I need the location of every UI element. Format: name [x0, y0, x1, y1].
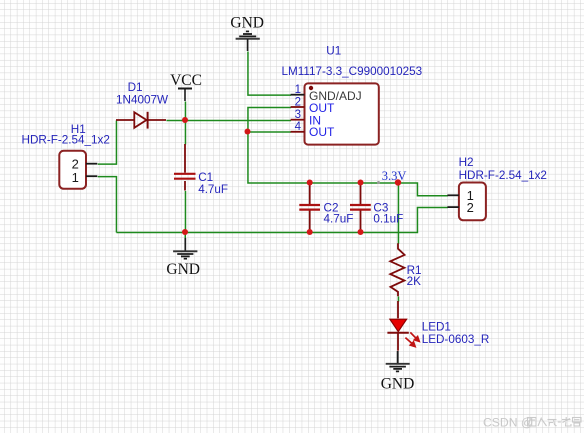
svg-text:OUT: OUT [309, 125, 335, 139]
svg-text:4.7uF: 4.7uF [198, 183, 228, 196]
svg-text:HDR-F-2.54_1x2: HDR-F-2.54_1x2 [22, 133, 110, 146]
svg-text:D1: D1 [128, 81, 143, 94]
svg-text:VCC: VCC [170, 72, 202, 89]
svg-text:U1: U1 [326, 45, 341, 58]
svg-text:2K: 2K [407, 275, 422, 288]
svg-text:1: 1 [72, 170, 79, 185]
svg-text:GND: GND [381, 375, 415, 392]
svg-text:3.3V: 3.3V [382, 169, 407, 183]
svg-text:2: 2 [295, 96, 301, 108]
svg-text:GND: GND [166, 261, 200, 278]
svg-text:HDR-F-2.54_1x2: HDR-F-2.54_1x2 [459, 169, 547, 182]
svg-text:GND: GND [230, 15, 264, 32]
svg-text:H2: H2 [459, 156, 474, 169]
svg-text:CSDN @: CSDN @ [483, 416, 533, 430]
svg-text:LM1117-3.3_C9900010253: LM1117-3.3_C9900010253 [282, 65, 423, 78]
svg-text:0.1uF: 0.1uF [373, 213, 403, 226]
svg-text:4.7uF: 4.7uF [324, 213, 354, 226]
svg-text:2: 2 [467, 200, 474, 215]
svg-text:1: 1 [295, 84, 301, 96]
svg-text:1N4007W: 1N4007W [116, 94, 168, 107]
svg-text:3: 3 [295, 109, 301, 121]
svg-text:C1: C1 [198, 171, 213, 184]
svg-text:LED-0603_R: LED-0603_R [422, 333, 490, 346]
svg-text:4: 4 [295, 121, 302, 133]
svg-text:LED1: LED1 [422, 321, 451, 334]
